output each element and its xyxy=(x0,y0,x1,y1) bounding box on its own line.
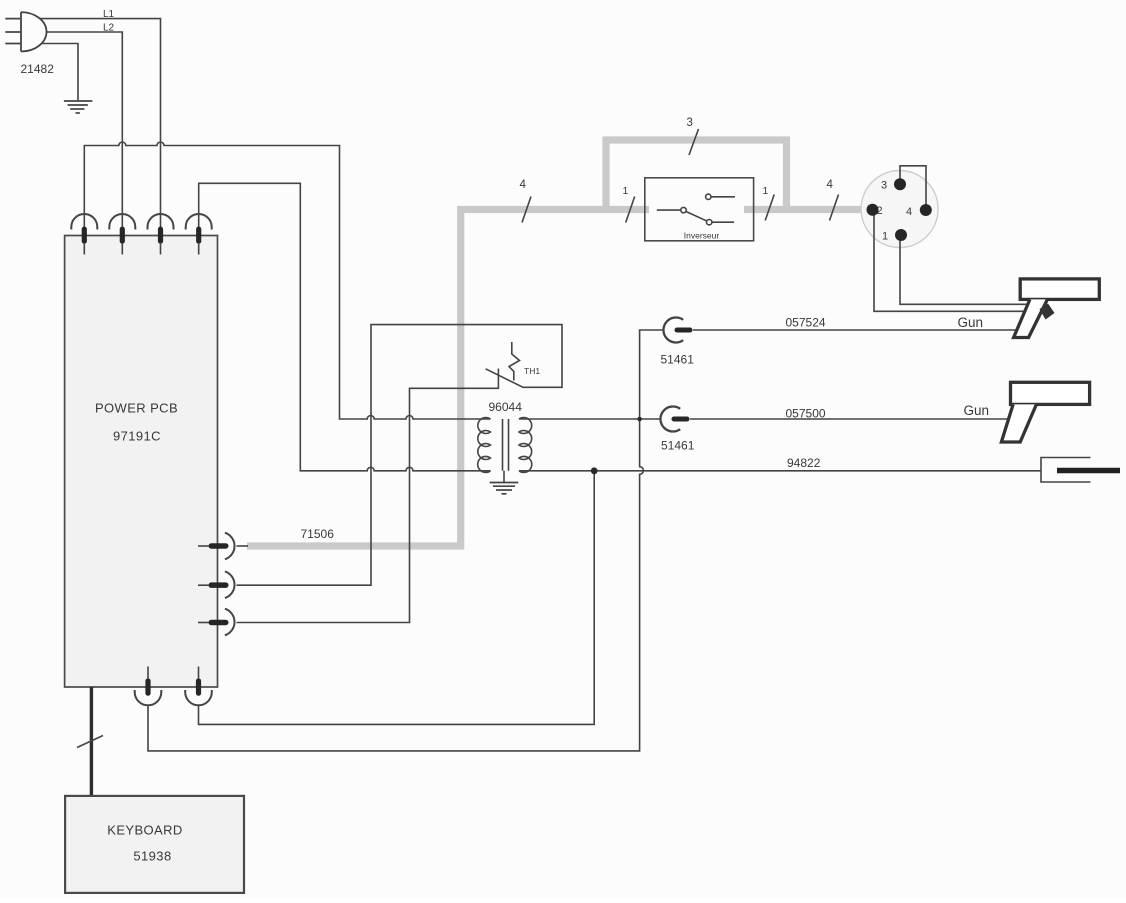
wire: PCB top pin 4 to transformer primary bottom (hops over TH1 verticals) xyxy=(199,183,491,471)
wire L2: plug to PCB pin 2 xyxy=(47,32,123,227)
wire slash mark 1 (right of box) xyxy=(765,195,774,221)
svg-text:POWER PCB: POWER PCB xyxy=(95,401,178,416)
wire: transformer secondary top to connector 51461 no.2 xyxy=(519,418,661,420)
transformer 96044 secondary coil xyxy=(519,418,532,473)
svg-text:4: 4 xyxy=(827,179,834,191)
svg-text:1: 1 xyxy=(763,185,769,197)
wire 057500: connector 51461 no.2 to gun 2 xyxy=(690,418,1009,420)
junction node (secondary bottom / B2) xyxy=(591,467,598,474)
connector: PCB right pin R2 xyxy=(198,571,235,598)
junction dot (B1 net crossing) xyxy=(637,417,642,422)
keyboard box 51938 xyxy=(65,796,244,893)
inverseur throw contact (upper) xyxy=(706,194,711,199)
inverseur pole contact xyxy=(681,207,686,212)
connector pin 4 xyxy=(920,204,932,216)
wire slash mark 3 (bypass) xyxy=(689,129,699,155)
svg-text:96044: 96044 xyxy=(489,400,523,414)
thermal switch TH1 element xyxy=(509,342,520,381)
gun 2 body xyxy=(1001,382,1089,442)
wire: pin 1 down to gun 1 xyxy=(900,241,1028,304)
svg-text:057524: 057524 xyxy=(786,316,826,330)
inverseur throw contact (lower) xyxy=(707,220,712,225)
circular connector (4-pin socket) xyxy=(861,171,938,248)
output lug bracket (94822) xyxy=(1041,458,1091,483)
wire 057524: connector 51461 no.1 to gun 1 xyxy=(693,329,1017,331)
wire slash mark 4 (left of inverseur) xyxy=(522,197,531,223)
connector: PCB top pin T2 xyxy=(109,214,135,255)
inverseur throw lead (lower) xyxy=(712,221,734,223)
wire L1: plug to PCB pin 3 xyxy=(40,19,161,227)
inverseur switch box xyxy=(645,178,754,241)
svg-text:94822: 94822 xyxy=(787,456,821,470)
inverseur throw lead (upper) xyxy=(711,196,735,198)
svg-text:L1: L1 xyxy=(103,9,115,20)
wire 94822: transformer secondary bottom to output lug xyxy=(519,470,1041,472)
connector: PCB top pin T3 xyxy=(148,214,174,255)
connector pin 3 xyxy=(894,178,906,190)
svg-text:71506: 71506 xyxy=(301,527,335,541)
transformer 96044 core xyxy=(503,419,509,471)
svg-text:L2: L2 xyxy=(103,23,115,34)
wire: transformer center tap to ground xyxy=(503,471,505,483)
connector: PCB bottom pin B1 xyxy=(135,667,162,706)
svg-text:21482: 21482 xyxy=(21,62,55,76)
svg-text:1: 1 xyxy=(623,185,629,197)
connector: PCB top pin T4 xyxy=(186,214,212,255)
svg-text:2: 2 xyxy=(877,205,883,217)
svg-text:Gun: Gun xyxy=(958,315,984,330)
wire: PCB right pin R3 to TH1 fixed contact xyxy=(237,388,499,622)
svg-text:3: 3 xyxy=(687,117,693,129)
svg-text:4: 4 xyxy=(906,206,912,218)
power PCB box 97191C xyxy=(65,236,218,688)
svg-text:KEYBOARD: KEYBOARD xyxy=(107,823,182,838)
inverseur blade xyxy=(686,212,706,221)
mains plug 21482 xyxy=(5,12,46,51)
inverseur pole lead xyxy=(657,209,680,211)
wire: PCB top pin 1 to transformer primary top (hops over L2,L1 and TH1 verticals) xyxy=(84,142,490,419)
svg-text:97191C: 97191C xyxy=(113,429,161,444)
wire slash mark 4 (right) xyxy=(830,195,839,221)
connector: PCB right pin R1 (71506) xyxy=(198,533,248,560)
svg-text:51938: 51938 xyxy=(133,849,171,864)
svg-text:Inverseur: Inverseur xyxy=(684,231,720,241)
svg-text:1: 1 xyxy=(882,231,888,243)
wire slash mark 1 (left of box) xyxy=(626,197,635,223)
connector pin 2 xyxy=(867,204,879,216)
connector pin 1 xyxy=(895,229,907,241)
svg-text:057500: 057500 xyxy=(786,407,826,421)
wire: thick gray harness 71506 from PCB to inverseur and connector pin 2 xyxy=(247,140,867,546)
ground (mains earth) xyxy=(64,101,93,113)
wire: link pin 3 to pin 4 xyxy=(900,166,926,204)
svg-text:Gun: Gun xyxy=(964,403,990,418)
wire: pin 2 down to gun 1 xyxy=(874,216,1024,312)
keyboard cable slash mark xyxy=(77,736,103,748)
svg-text:51461: 51461 xyxy=(661,353,695,367)
thermal switch TH1 contact tick xyxy=(497,369,499,390)
wire: PCB bottom pin B1 to connector 51461 no.1 (hop over 94822 wire) xyxy=(148,330,664,751)
svg-text:4: 4 xyxy=(520,179,527,191)
gun 1 body xyxy=(1014,279,1100,338)
svg-text:TH1: TH1 xyxy=(524,366,540,376)
wire: plug earth lead xyxy=(42,44,79,102)
wire: PCB right pin R2 to TH1 box (left edge) and blade xyxy=(237,325,563,586)
svg-text:51461: 51461 xyxy=(661,439,695,453)
svg-text:3: 3 xyxy=(881,180,887,192)
wire: PCB bottom pin B2 up to transformer secondary bottom junction xyxy=(199,471,595,725)
connector: PCB top pin T1 xyxy=(71,214,97,255)
connector: PCB bottom pin B2 xyxy=(185,667,212,706)
output lug blade xyxy=(1057,468,1120,474)
connector 51461 no.1 xyxy=(663,318,692,343)
connector: PCB right pin R3 xyxy=(198,609,235,636)
gun 1 trigger xyxy=(1040,304,1055,320)
transformer 96044 primary coil xyxy=(478,418,491,473)
ground (transformer) xyxy=(490,483,519,494)
wire: thick keyboard cable xyxy=(90,687,93,795)
connector 51461 no.2 xyxy=(660,406,689,431)
